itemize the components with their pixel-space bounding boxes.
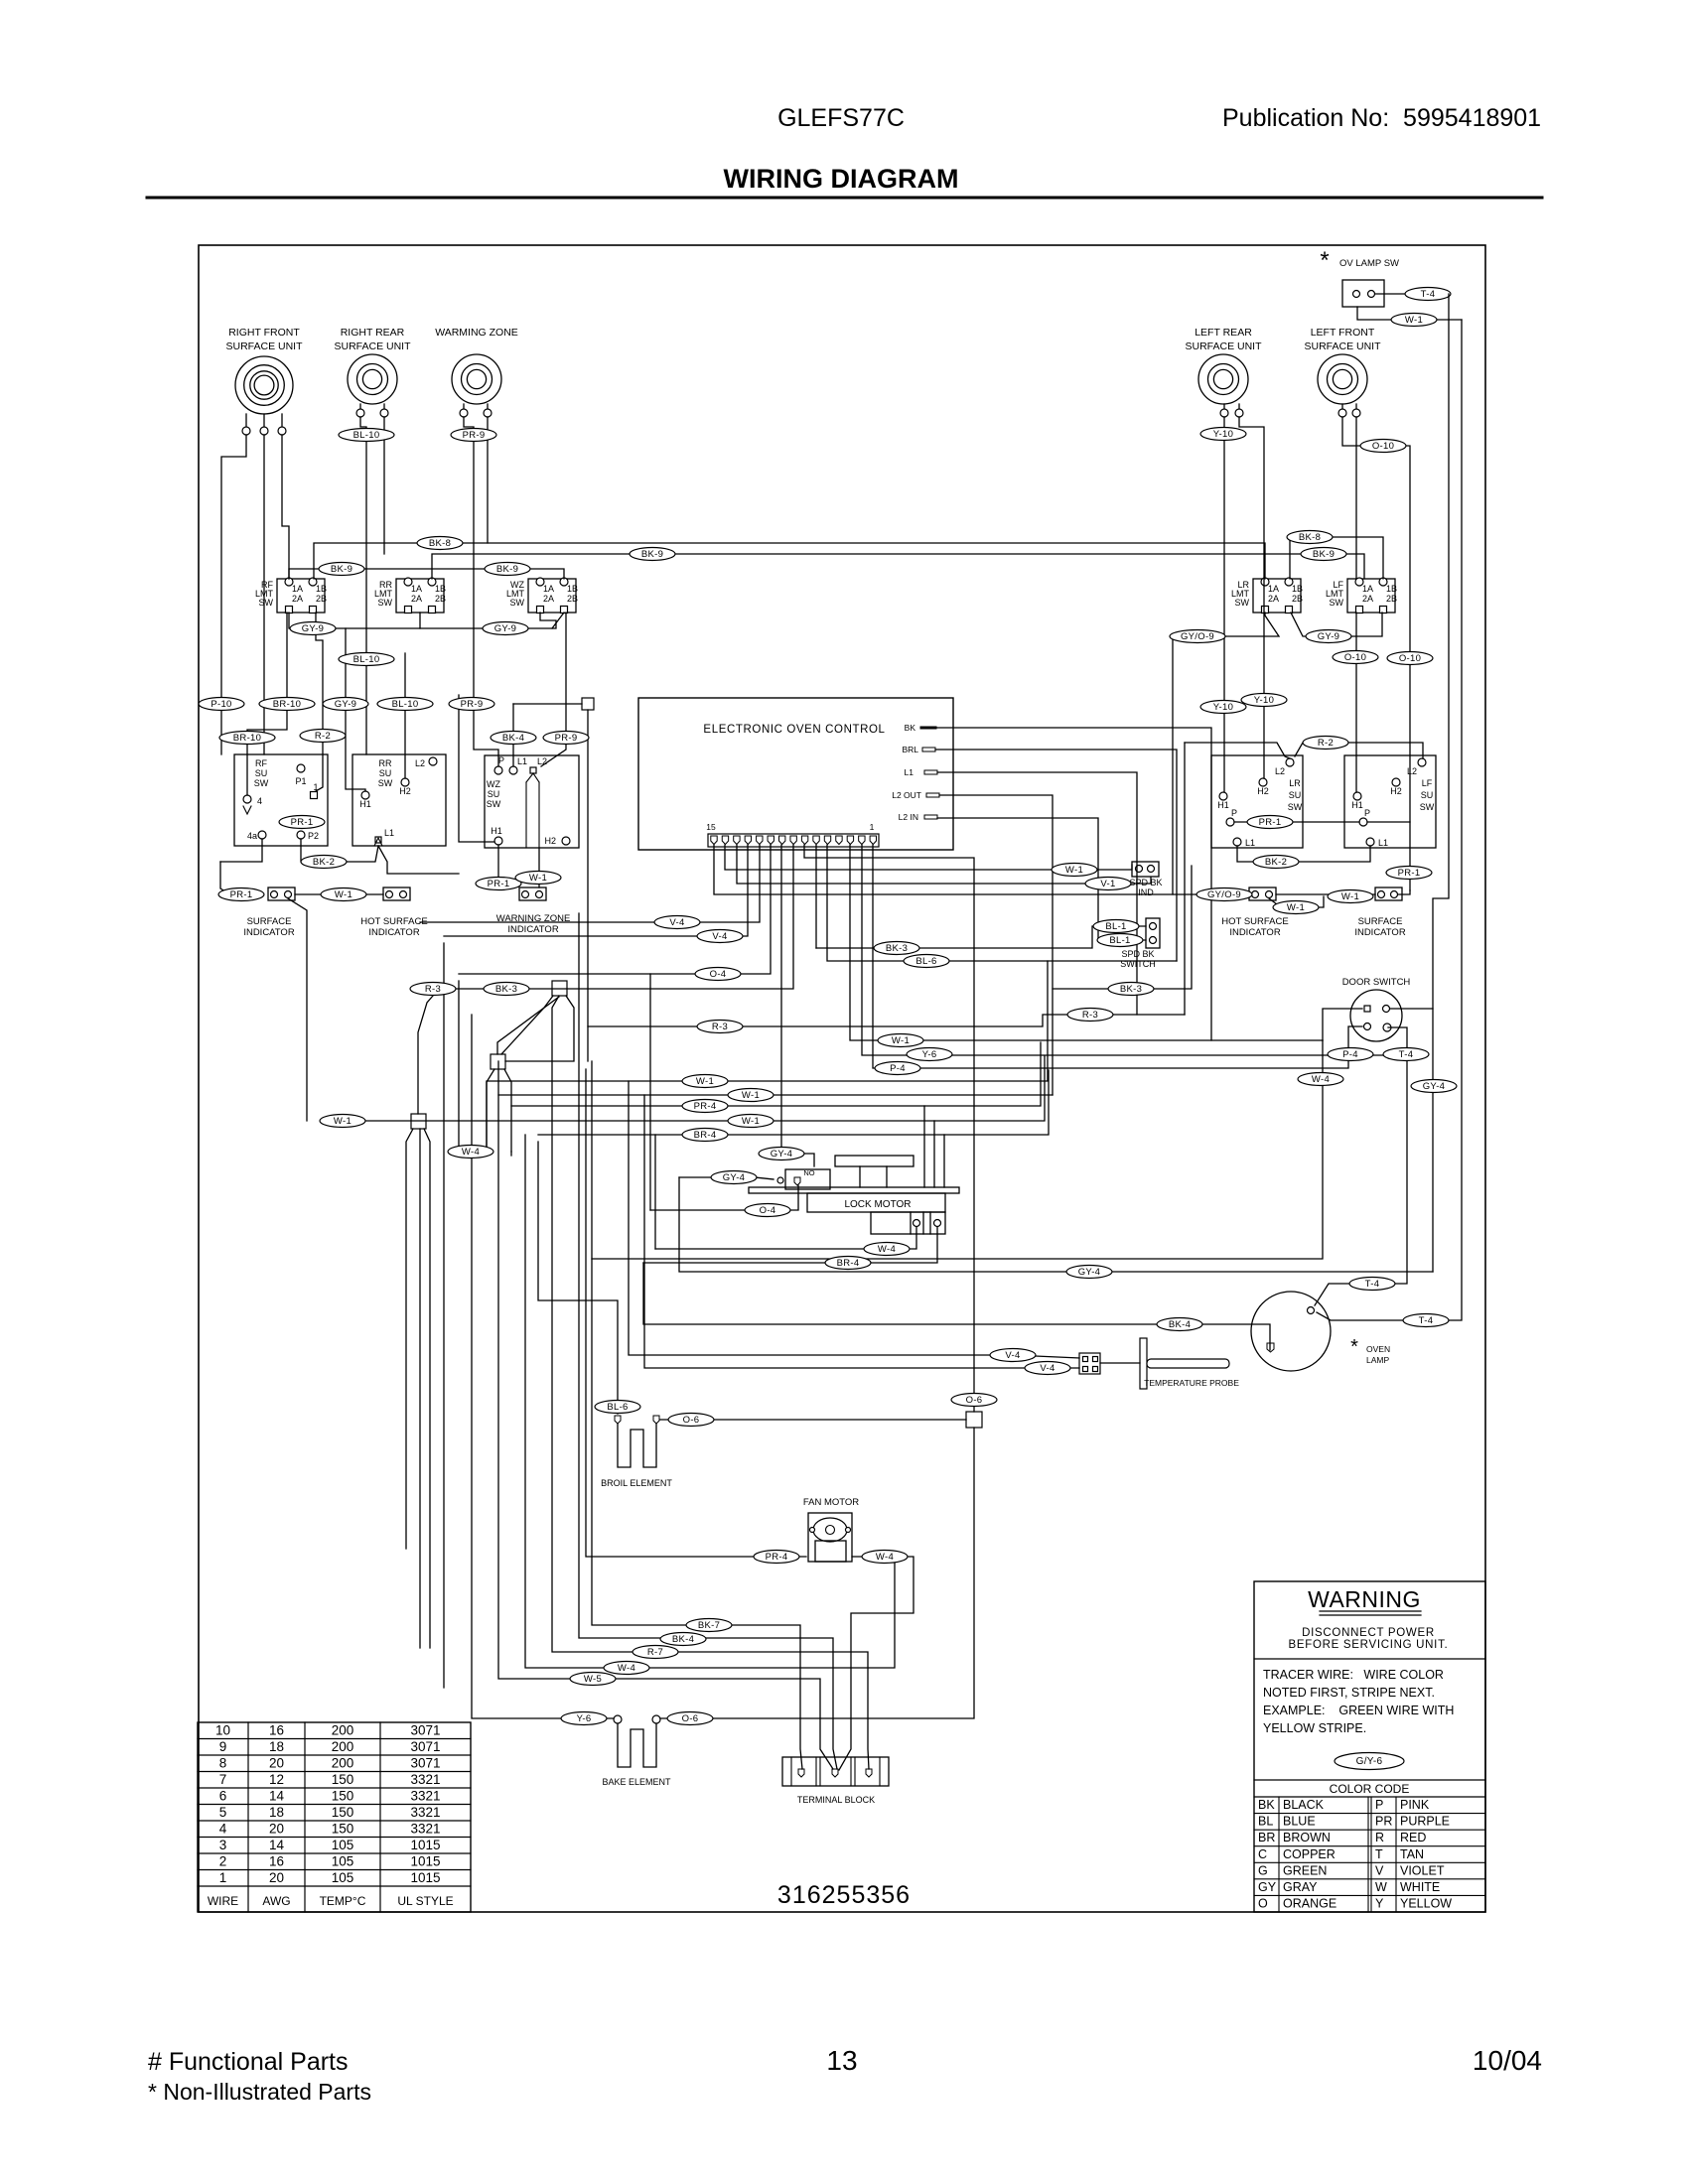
wire 4a loop bbox=[220, 839, 262, 862]
svg-text:# Functional Parts: # Functional Parts bbox=[148, 2048, 349, 2076]
svg-text:6: 6 bbox=[219, 1789, 227, 1804]
svg-text:PR-4: PR-4 bbox=[694, 1101, 717, 1112]
svg-text:BK-7: BK-7 bbox=[698, 1620, 720, 1631]
svg-text:R-2: R-2 bbox=[1318, 738, 1334, 749]
label BK-7 bbox=[686, 1619, 732, 1632]
svg-text:BR-4: BR-4 bbox=[837, 1258, 860, 1269]
wire WZ coil t1 down PR-9 bbox=[464, 417, 498, 766]
svg-text:COLOR CODE: COLOR CODE bbox=[1330, 1782, 1410, 1796]
svg-text:GREEN: GREEN bbox=[1283, 1863, 1327, 1877]
svg-text:SW: SW bbox=[510, 598, 525, 608]
svg-text:WIRE: WIRE bbox=[208, 1894, 238, 1908]
svg-text:WARMING ZONE: WARMING ZONE bbox=[435, 327, 518, 339]
svg-text:BR-10: BR-10 bbox=[233, 733, 261, 744]
label PR-9 bbox=[451, 429, 496, 442]
svg-text:INDICATOR: INDICATOR bbox=[368, 927, 420, 938]
label PR-1 bbox=[218, 888, 264, 901]
svg-text:BLUE: BLUE bbox=[1283, 1815, 1316, 1829]
wire LF coil t2 down bbox=[1355, 417, 1357, 579]
label Y-6 bbox=[907, 1048, 952, 1061]
wire EOC pin 11 bbox=[420, 845, 760, 922]
svg-text:O-4: O-4 bbox=[710, 969, 727, 980]
svg-text:BL-1: BL-1 bbox=[1105, 921, 1126, 932]
svg-text:1B: 1B bbox=[1292, 584, 1303, 594]
wire RR coil t2 to BK-9 bus bbox=[383, 417, 385, 554]
svg-text:V-4: V-4 bbox=[1005, 1350, 1020, 1361]
svg-text:BL-1: BL-1 bbox=[1109, 935, 1130, 946]
svg-text:L2 IN: L2 IN bbox=[899, 812, 918, 822]
label W-1 bbox=[728, 1115, 774, 1128]
wire surface ind to hot ind W-1 bbox=[295, 893, 383, 895]
wire BK-4 junction link bbox=[513, 703, 582, 705]
svg-text:PR-9: PR-9 bbox=[463, 430, 486, 441]
vert 490 long bbox=[486, 1082, 488, 1152]
svg-text:L2: L2 bbox=[1407, 766, 1417, 776]
svg-text:BL-10: BL-10 bbox=[353, 654, 380, 665]
label P-4 bbox=[1328, 1048, 1373, 1061]
wire EOC BK out bbox=[935, 728, 1211, 1040]
svg-text:BK-3: BK-3 bbox=[1120, 984, 1142, 995]
vert 660 lock bbox=[654, 1135, 656, 1249]
svg-text:W-1: W-1 bbox=[334, 1116, 352, 1127]
svg-text:3321: 3321 bbox=[410, 1772, 440, 1787]
svg-text:HOT SURFACE: HOT SURFACE bbox=[1221, 916, 1288, 927]
label W-4 bbox=[864, 1243, 910, 1256]
EOC terminal BRL bbox=[902, 745, 935, 754]
bus GY-9 right x bbox=[1291, 613, 1382, 636]
tap RR LMT 2B to GY-9 bbox=[419, 613, 421, 628]
svg-text:1: 1 bbox=[870, 822, 875, 832]
oven lamp switch OV LAMP SW bbox=[1320, 247, 1399, 307]
svg-text:O-10: O-10 bbox=[1399, 653, 1421, 664]
label BL-10 bbox=[377, 698, 433, 711]
svg-text:BROIL ELEMENT: BROIL ELEMENT bbox=[601, 1478, 672, 1488]
label BK-8 bbox=[1287, 531, 1333, 544]
junction C top bbox=[497, 997, 559, 1054]
svg-text:V-4: V-4 bbox=[712, 931, 727, 942]
svg-text:P: P bbox=[1231, 808, 1237, 818]
svg-text:1: 1 bbox=[219, 1870, 227, 1885]
wire BK-3 right link bbox=[1053, 866, 1192, 989]
svg-text:2A: 2A bbox=[1362, 594, 1373, 604]
EOC connector strip pins 15..1 bbox=[706, 822, 879, 847]
svg-text:V: V bbox=[1375, 1863, 1384, 1877]
svg-text:3321: 3321 bbox=[410, 1805, 440, 1820]
svg-text:BROWN: BROWN bbox=[1283, 1831, 1331, 1844]
wire PR-1 surface ind feed bbox=[220, 862, 230, 894]
label PR-9 bbox=[543, 732, 589, 745]
wire T-4 door to lamp bbox=[1315, 1027, 1407, 1305]
svg-text:O-10: O-10 bbox=[1372, 441, 1394, 452]
svg-text:R-3: R-3 bbox=[425, 984, 441, 995]
svg-text:P-10: P-10 bbox=[211, 699, 231, 710]
label PR-1 bbox=[476, 878, 521, 890]
svg-text:SURFACE UNIT: SURFACE UNIT bbox=[1185, 341, 1262, 352]
svg-text:FAN MOTOR: FAN MOTOR bbox=[803, 1497, 859, 1508]
svg-text:OVEN: OVEN bbox=[1366, 1344, 1390, 1354]
label Y-10 bbox=[1200, 428, 1246, 441]
svg-text:R-7: R-7 bbox=[647, 1647, 663, 1658]
label PR-1 bbox=[1247, 816, 1293, 829]
label O-4 bbox=[695, 968, 741, 981]
wire W-1 right lower bbox=[1269, 896, 1324, 907]
svg-text:16: 16 bbox=[269, 1854, 284, 1869]
bus GY-9 left bbox=[289, 613, 556, 628]
label BL-1 bbox=[1097, 934, 1143, 947]
svg-text:200: 200 bbox=[332, 1739, 354, 1754]
svg-text:BK-8: BK-8 bbox=[1299, 532, 1321, 543]
wire BL-1 upper link bbox=[816, 926, 1146, 948]
label Y-6 bbox=[561, 1712, 607, 1725]
label T-4 (ov lamp sw) bbox=[1405, 288, 1451, 301]
svg-text:PR-4: PR-4 bbox=[766, 1552, 788, 1563]
wire LR coil t2 to H2 bbox=[1239, 417, 1264, 778]
svg-text:DOOR SWITCH: DOOR SWITCH bbox=[1342, 977, 1411, 988]
svg-text:R-3: R-3 bbox=[712, 1022, 728, 1032]
svg-text:GY/O-9: GY/O-9 bbox=[1207, 889, 1241, 900]
wire fan W-4 bbox=[839, 1557, 914, 1770]
svg-text:PR-9: PR-9 bbox=[461, 699, 484, 710]
svg-text:14: 14 bbox=[269, 1838, 285, 1852]
wire BR-10 vertical bbox=[247, 613, 287, 795]
vert 515 long bbox=[510, 1152, 512, 1156]
svg-text:1015: 1015 bbox=[410, 1838, 440, 1852]
svg-text:SW: SW bbox=[1288, 802, 1303, 812]
svg-text:GY-4: GY-4 bbox=[723, 1172, 746, 1183]
lock motor assembly bbox=[749, 1156, 959, 1234]
label P-10 bbox=[199, 698, 244, 711]
wire EOC L2 OUT bbox=[939, 795, 1053, 1095]
svg-text:GLEFS77C: GLEFS77C bbox=[777, 104, 905, 132]
RR limit switch bbox=[374, 578, 446, 614]
bus w1 lower a bbox=[487, 961, 1048, 1081]
label P-4 bbox=[875, 1062, 920, 1075]
svg-text:SW: SW bbox=[1235, 598, 1250, 608]
svg-text:4: 4 bbox=[219, 1822, 227, 1837]
svg-text:SW: SW bbox=[1420, 802, 1435, 812]
svg-text:LR: LR bbox=[1289, 778, 1301, 788]
svg-text:H2: H2 bbox=[399, 786, 411, 796]
svg-text:TEMPERATURE PROBE: TEMPERATURE PROBE bbox=[1144, 1378, 1239, 1388]
left rear surface unit coil bbox=[1185, 327, 1262, 417]
wire RR coil t1 down BL-10 bbox=[360, 417, 366, 754]
wire R-2 drop bbox=[316, 613, 323, 791]
hot surface indicator (left) bbox=[360, 887, 427, 938]
svg-text:WARNING: WARNING bbox=[1308, 1586, 1421, 1612]
label T-4 bbox=[1403, 1314, 1449, 1327]
svg-text:L2 OUT: L2 OUT bbox=[892, 790, 921, 800]
bus BK-9 right pair bbox=[1290, 537, 1383, 579]
svg-text:2B: 2B bbox=[567, 594, 578, 604]
label PR-1 bbox=[1386, 867, 1432, 880]
svg-text:BR-4: BR-4 bbox=[694, 1130, 717, 1141]
label W-1 bbox=[1273, 901, 1319, 914]
svg-text:W-1: W-1 bbox=[1405, 315, 1423, 326]
svg-text:150: 150 bbox=[332, 1789, 354, 1804]
svg-text:2A: 2A bbox=[292, 594, 303, 604]
svg-text:O-4: O-4 bbox=[760, 1205, 776, 1216]
label V-1 bbox=[1085, 878, 1131, 890]
junction C leg1 bbox=[487, 1069, 494, 1152]
svg-text:NO: NO bbox=[803, 1168, 814, 1177]
wire EOC pin 7 bbox=[804, 845, 974, 1412]
SPD BK SWITCH bbox=[1120, 918, 1160, 969]
temperature probe bbox=[1079, 1338, 1239, 1389]
label PR-4 bbox=[682, 1100, 728, 1113]
label T-4 bbox=[1349, 1278, 1395, 1291]
junction D top bbox=[418, 996, 433, 1114]
wire GY-9 drop to RR H1 bbox=[346, 628, 365, 791]
svg-text:* Non-Illustrated Parts: * Non-Illustrated Parts bbox=[148, 2079, 371, 2105]
wire BK-2 right bbox=[1237, 846, 1370, 862]
svg-text:1015: 1015 bbox=[410, 1854, 440, 1869]
label Y-10 bbox=[1200, 701, 1246, 714]
label T-4 bbox=[1383, 1048, 1429, 1061]
wire LF coil t1 O-10 vert bbox=[1342, 417, 1410, 890]
wire EOC pin 9 GY-4 bbox=[781, 845, 814, 1166]
svg-text:3321: 3321 bbox=[410, 1822, 440, 1837]
label BK-3 bbox=[874, 942, 919, 955]
svg-text:WZ: WZ bbox=[487, 779, 500, 789]
label PR-4 bbox=[754, 1551, 799, 1564]
label W-1 bbox=[515, 872, 561, 885]
svg-text:H2: H2 bbox=[544, 836, 556, 846]
warning and color code box bbox=[1254, 1581, 1485, 1912]
svg-text:SURFACE: SURFACE bbox=[247, 916, 292, 927]
svg-text:INDICATOR: INDICATOR bbox=[1354, 927, 1406, 938]
wire O-6 oval bake bbox=[660, 1717, 690, 1719]
svg-text:1A: 1A bbox=[1268, 584, 1279, 594]
svg-text:1B: 1B bbox=[567, 584, 578, 594]
svg-text:2A: 2A bbox=[543, 594, 554, 604]
junction D leg2 bbox=[424, 1129, 430, 1648]
bus pr4 lower bbox=[511, 1042, 1041, 1106]
svg-text:Y-10: Y-10 bbox=[1213, 429, 1233, 440]
svg-text:TERMINAL BLOCK: TERMINAL BLOCK bbox=[797, 1795, 875, 1805]
svg-text:2B: 2B bbox=[1386, 594, 1397, 604]
wire GY/O-9 drop bbox=[1173, 636, 1249, 894]
wire PR-1 right to ind bbox=[1398, 890, 1410, 894]
svg-text:W-1: W-1 bbox=[742, 1090, 760, 1101]
svg-text:*: * bbox=[1350, 1336, 1358, 1358]
wire BK-7 line bbox=[592, 1061, 802, 1769]
wire O-6 down bbox=[712, 1428, 974, 1718]
svg-text:RF: RF bbox=[255, 758, 267, 768]
svg-text:BK-9: BK-9 bbox=[496, 564, 518, 575]
svg-text:W-4: W-4 bbox=[878, 1244, 896, 1255]
svg-text:1A: 1A bbox=[1362, 584, 1373, 594]
svg-text:INDICATOR: INDICATOR bbox=[507, 924, 559, 935]
svg-text:LEFT REAR: LEFT REAR bbox=[1195, 327, 1252, 339]
svg-text:PR-1: PR-1 bbox=[488, 879, 510, 889]
wire T-4 from OV LAMP SW bbox=[1375, 293, 1449, 295]
label BK-4 bbox=[1157, 1318, 1202, 1331]
svg-text:W-1: W-1 bbox=[335, 889, 352, 900]
header publication number bbox=[1222, 104, 1541, 132]
svg-text:16: 16 bbox=[269, 1723, 284, 1738]
svg-text:GY-9: GY-9 bbox=[494, 623, 517, 634]
svg-text:G: G bbox=[1258, 1863, 1268, 1877]
wire W-1 ovsw long bbox=[1317, 320, 1462, 1320]
label GY-9 bbox=[290, 622, 336, 635]
svg-text:BK: BK bbox=[1258, 1798, 1275, 1812]
EOC terminal L2 OUT bbox=[892, 790, 939, 800]
X diag B2 bbox=[505, 996, 574, 1061]
label GY-4 bbox=[711, 1171, 757, 1184]
svg-text:EXAMPLE: GREEN WIRE WITH: EXAMPLE: GREEN WIRE WITH bbox=[1263, 1704, 1454, 1717]
label W-1 bbox=[320, 1115, 365, 1128]
svg-text:RIGHT REAR: RIGHT REAR bbox=[341, 327, 405, 339]
label BK-4 bbox=[491, 732, 536, 745]
svg-text:13: 13 bbox=[826, 2045, 857, 2076]
svg-text:T-4: T-4 bbox=[1399, 1049, 1414, 1060]
svg-text:GY-9: GY-9 bbox=[1318, 631, 1340, 642]
wire P right ext bbox=[1367, 821, 1410, 823]
svg-text:SU: SU bbox=[379, 768, 392, 778]
svg-text:BK-3: BK-3 bbox=[886, 943, 908, 954]
diagram border frame bbox=[199, 245, 1485, 1912]
label O-6 bbox=[668, 1414, 714, 1427]
svg-text:LF: LF bbox=[1422, 778, 1433, 788]
svg-text:L1: L1 bbox=[517, 756, 527, 766]
svg-text:L1: L1 bbox=[1378, 838, 1388, 848]
svg-text:AWG: AWG bbox=[262, 1894, 290, 1908]
electronic oven control box bbox=[638, 698, 953, 850]
svg-text:1A: 1A bbox=[292, 584, 303, 594]
svg-text:BK-8: BK-8 bbox=[429, 538, 451, 549]
svg-text:2B: 2B bbox=[316, 594, 327, 604]
wire GY-4 lock NO bbox=[679, 1177, 774, 1179]
svg-text:W-4: W-4 bbox=[462, 1147, 480, 1158]
wire W-4 line lower bbox=[525, 1135, 895, 1668]
svg-text:BK-4: BK-4 bbox=[672, 1634, 694, 1645]
svg-text:SU: SU bbox=[1289, 790, 1302, 800]
svg-text:18: 18 bbox=[269, 1739, 284, 1754]
wire W-1 from OV LAMP SW bbox=[1357, 307, 1462, 320]
svg-text:BL-10: BL-10 bbox=[353, 430, 380, 441]
svg-text:SPD BK: SPD BK bbox=[1129, 878, 1162, 887]
svg-text:1A: 1A bbox=[411, 584, 422, 594]
label BK-9 bbox=[1301, 548, 1346, 561]
junction box D bbox=[411, 1114, 426, 1129]
label BK-4 bbox=[660, 1633, 706, 1646]
wire WZ coil t2 to BK-8 bus bbox=[487, 417, 489, 543]
label W-1 bbox=[682, 1075, 728, 1088]
footer non-illustrated parts note bbox=[148, 2079, 371, 2105]
bus GY/O-9 right bbox=[1173, 613, 1279, 636]
wire RF coil t2 down bbox=[263, 435, 265, 754]
EOC terminal BK bbox=[905, 723, 935, 733]
junction box C bbox=[491, 1054, 505, 1069]
svg-text:IND: IND bbox=[1138, 887, 1154, 897]
right rear surface unit coil bbox=[334, 327, 411, 417]
label O-10 bbox=[1360, 440, 1406, 453]
wire BK-4 to WZ L1 bbox=[512, 704, 514, 766]
label GY/O-9 bbox=[1196, 888, 1252, 901]
svg-text:SW: SW bbox=[378, 598, 393, 608]
svg-text:ELECTRONIC OVEN CONTROL: ELECTRONIC OVEN CONTROL bbox=[703, 724, 885, 736]
wire WZ H1 down PR-1 bbox=[497, 845, 499, 887]
label W-1 bbox=[1328, 890, 1373, 903]
svg-text:150: 150 bbox=[332, 1822, 354, 1837]
svg-text:SU: SU bbox=[1421, 790, 1434, 800]
svg-text:SU: SU bbox=[488, 789, 500, 799]
svg-text:PR-1: PR-1 bbox=[1398, 868, 1421, 879]
svg-text:SURFACE: SURFACE bbox=[1358, 916, 1403, 927]
wire EOC pin 1 bbox=[873, 845, 1362, 1068]
label GY-9 bbox=[1306, 630, 1351, 643]
svg-text:TRACER WIRE: WIRE COLOR: TRACER WIRE: WIRE COLOR bbox=[1263, 1668, 1444, 1682]
label R-2 bbox=[300, 730, 346, 743]
wire EOC pin 5 bbox=[827, 845, 1177, 961]
svg-text:P: P bbox=[1375, 1798, 1383, 1812]
vert 542 BL-6 broil bbox=[538, 1142, 618, 1414]
svg-text:3321: 3321 bbox=[410, 1789, 440, 1804]
bus BK-9 lower-left bbox=[289, 569, 564, 579]
EOC terminal L1 bbox=[905, 767, 937, 777]
svg-text:P: P bbox=[1364, 808, 1370, 818]
svg-text:3: 3 bbox=[219, 1838, 227, 1852]
svg-text:W-1: W-1 bbox=[1065, 865, 1083, 876]
label BL-6 bbox=[595, 1401, 640, 1414]
LR surface unit switch box bbox=[1211, 755, 1303, 848]
svg-text:BL-6: BL-6 bbox=[607, 1402, 628, 1413]
svg-text:BK-9: BK-9 bbox=[1313, 549, 1335, 560]
right front surface unit coil bbox=[225, 327, 303, 435]
label BK-9 bbox=[630, 548, 675, 561]
left front surface unit coil bbox=[1304, 327, 1381, 417]
svg-text:WHITE: WHITE bbox=[1400, 1880, 1440, 1894]
svg-text:SW: SW bbox=[254, 778, 269, 788]
surface indicator (right) bbox=[1354, 887, 1406, 938]
label V-4 bbox=[697, 930, 743, 943]
vert 447 long bbox=[443, 943, 445, 1688]
svg-text:Y: Y bbox=[1375, 1897, 1384, 1911]
title rule bbox=[147, 197, 1542, 200]
svg-text:SURFACE UNIT: SURFACE UNIT bbox=[334, 341, 411, 352]
label R-2 bbox=[1303, 737, 1348, 750]
label PR-1 bbox=[279, 816, 325, 829]
wire EOC pin 12 bbox=[444, 845, 748, 936]
svg-text:8: 8 bbox=[219, 1756, 227, 1771]
WZ surface unit switch box bbox=[485, 755, 579, 848]
svg-text:W-4: W-4 bbox=[1312, 1074, 1330, 1085]
vert 423 long bbox=[419, 1129, 421, 1648]
bus w1 lower c bbox=[324, 1056, 1045, 1121]
svg-text:W: W bbox=[1375, 1880, 1387, 1894]
svg-text:14: 14 bbox=[269, 1789, 285, 1804]
svg-text:T-4: T-4 bbox=[1419, 1315, 1434, 1326]
svg-text:W-4: W-4 bbox=[618, 1663, 635, 1674]
svg-text:W-1: W-1 bbox=[696, 1076, 714, 1087]
svg-text:2B: 2B bbox=[1292, 594, 1303, 604]
label BK-8 bbox=[417, 537, 463, 550]
wire lock BR-4 bbox=[643, 1227, 937, 1263]
fan motor bbox=[803, 1497, 859, 1562]
wire R-2 right bus bbox=[1185, 743, 1290, 758]
wire W-1 WZ drop bbox=[538, 848, 540, 887]
label BK-3 bbox=[484, 983, 529, 996]
svg-text:PR-1: PR-1 bbox=[1259, 817, 1282, 828]
svg-text:5: 5 bbox=[219, 1805, 227, 1820]
svg-text:DISCONNECT POWER: DISCONNECT POWER bbox=[1302, 1627, 1435, 1639]
wire LF LMT 2A to H1 bbox=[1355, 613, 1357, 792]
svg-text:3071: 3071 bbox=[410, 1756, 440, 1771]
wire W-1 ind link bbox=[1276, 893, 1375, 895]
svg-text:GY: GY bbox=[1258, 1880, 1277, 1894]
wire RR L1 diag down bbox=[378, 846, 459, 874]
svg-text:R: R bbox=[1375, 1831, 1384, 1844]
